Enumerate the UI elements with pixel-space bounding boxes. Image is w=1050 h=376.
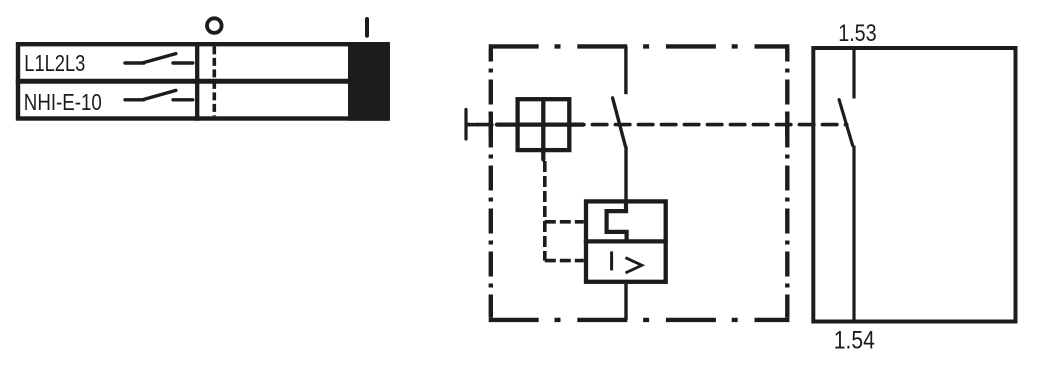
svg-text:1.54: 1.54 — [834, 327, 875, 355]
svg-text:1.53: 1.53 — [838, 20, 877, 47]
svg-text:L1L2L3: L1L2L3 — [24, 50, 85, 76]
svg-text:NHI-E-10: NHI-E-10 — [24, 89, 102, 115]
